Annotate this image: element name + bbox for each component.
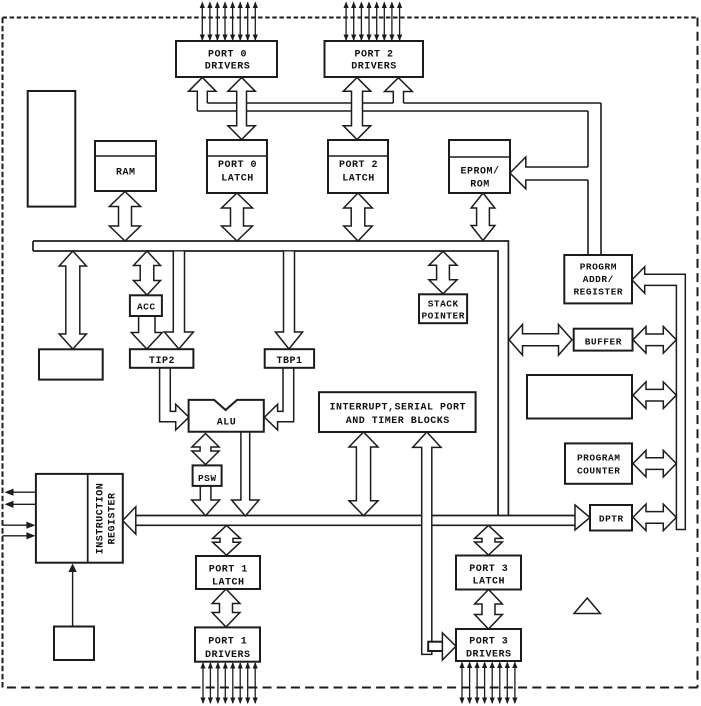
wire: timing box up to instruction register [72, 566, 74, 627]
svg-text:COUNTER: COUNTER [577, 466, 620, 477]
block PORT 2 LATCH [328, 140, 388, 193]
svg-text:DRIVERS: DRIVERS [466, 650, 512, 661]
svg-text:TIP2: TIP2 [149, 356, 175, 367]
svg-text:LATCH: LATCH [473, 577, 506, 588]
arrow: ALU to PSW [192, 434, 219, 465]
block RAM [95, 141, 156, 191]
svg-text:DRIVERS: DRIVERS [351, 62, 397, 73]
svg-text:ROM: ROM [470, 180, 490, 191]
buffer triangle at port 3 drivers [442, 633, 456, 660]
svg-text:PORT 1: PORT 1 [208, 637, 247, 648]
block: unconnected tall register box [28, 91, 76, 207]
wire: vertical channel from port 3 drivers up to interrupt block [413, 432, 441, 654]
svg-text:PORT 3: PORT 3 [469, 637, 508, 648]
svg-text:POINTER: POINTER [421, 311, 464, 322]
control lines into instruction register [3, 522, 36, 540]
arrow: bus down to TMP2 [164, 252, 193, 350]
arrow: port 2 latch to bus [344, 193, 373, 241]
arrow: bus to ACC [134, 251, 161, 295]
arrow: bus up into port 2 drivers (right) [385, 78, 413, 103]
port 3 pin arrows (bottom) [459, 662, 517, 705]
block PORT 3 DRIVERS [456, 629, 521, 661]
arrow: interrupt block to lower bus [349, 432, 378, 516]
oscillator triangle [574, 598, 600, 614]
PORT 2 LATCH header line [328, 155, 388, 157]
port 0 pin arrows (top) [200, 2, 258, 42]
svg-text:DPTR: DPTR [599, 514, 624, 525]
block unnamed register [527, 375, 632, 419]
block TMP1 [265, 349, 314, 368]
block BUFFER [574, 329, 633, 351]
block PROGRM ADDR REGISTER [564, 255, 632, 303]
arrow: bus channel to BUFFER (long horizontal) [509, 325, 572, 356]
svg-text:TBP1: TBP1 [276, 356, 302, 367]
arrow: BUFFER to right channel [633, 327, 676, 354]
arrow: TMP2 into ALU [160, 368, 189, 430]
svg-text:ACC: ACC [137, 302, 156, 313]
svg-text:RAM: RAM [116, 168, 136, 179]
arrow: bus up into port 0 drivers (left) [189, 78, 216, 112]
svg-text:BUFFER: BUFFER [585, 337, 622, 348]
svg-text:PORT 1: PORT 1 [209, 565, 248, 576]
block B register (unlabeled) [39, 349, 103, 379]
svg-text:STACK: STACK [428, 299, 459, 310]
wire arrowhead: lower bus into DPTR [575, 505, 590, 530]
block INTERRUPT SERIAL PORT AND TIMER BLOCKS [319, 392, 476, 432]
block INSTRUCTION REGISTER [36, 474, 123, 563]
arrow: ALU down to lower bus [232, 432, 259, 516]
RAM header line [95, 155, 156, 157]
svg-text:PROGRM: PROGRM [580, 262, 617, 273]
svg-text:LATCH: LATCH [342, 174, 375, 185]
port 2 pin arrows (top) [344, 2, 403, 42]
wire stub into port 3 drivers buffer [428, 642, 443, 651]
wire: top bus under port drivers [197, 103, 601, 255]
arrow: program counter to right channel [633, 450, 676, 477]
svg-text:PORT 0: PORT 0 [208, 50, 247, 61]
arrow: PSW down to lower bus [192, 486, 220, 516]
svg-text:PROGRAM: PROGRAM [577, 453, 620, 464]
wire: right side bus channel with arrow into program address register [632, 267, 685, 530]
instruction register divider [87, 474, 89, 563]
svg-text:AND TIMER BLOCKS: AND TIMER BLOCKS [346, 416, 450, 427]
PORT 0 LATCH header line [207, 155, 267, 157]
svg-text:DRIVERS: DRIVERS [205, 62, 251, 73]
arrow: bus to stack pointer [429, 251, 457, 293]
block PORT 1 DRIVERS [195, 627, 260, 661]
bus: main internal bus [33, 241, 508, 516]
svg-text:REGISTER: REGISTER [108, 492, 119, 544]
block DPTR [590, 505, 632, 531]
block PROGRAM COUNTER [565, 443, 632, 483]
svg-text:ALU: ALU [217, 418, 237, 429]
block PORT 3 LATCH [456, 556, 521, 590]
arrow: port 0 drivers / port 0 latch vertical bus [228, 78, 255, 140]
arrow: RAM to bus [109, 192, 140, 242]
arrow: bus down to TMP1 [275, 252, 302, 350]
block PORT 0 DRIVERS [176, 41, 277, 77]
block ACC [130, 295, 162, 316]
block: small bottom-left box [54, 627, 94, 661]
arrow: port 2 drivers / port 2 latch vertical bus [343, 78, 370, 140]
svg-text:PORT 0: PORT 0 [218, 160, 257, 171]
block ALU (with notched top) [189, 400, 264, 432]
block PORT 2 DRIVERS [325, 41, 424, 77]
svg-text:DRIVERS: DRIVERS [205, 650, 251, 661]
arrow: ACC down to TMP2 [131, 316, 162, 349]
arrow: lower bus to port 1 latch [213, 525, 241, 555]
svg-text:PORT 2: PORT 2 [339, 160, 378, 171]
bus: lower internal bus [136, 516, 575, 526]
arrow: lower bus to port 3 latch [475, 525, 503, 555]
block TMP2 [130, 349, 194, 368]
arrow: unnamed register to right channel [633, 382, 676, 409]
block EPROM/ROM [449, 140, 510, 193]
svg-text:LATCH: LATCH [221, 174, 254, 185]
block PSW [193, 465, 222, 486]
port 1 pin arrows (bottom) [200, 662, 257, 704]
svg-text:REGISTER: REGISTER [573, 287, 623, 298]
arrow: port 0 latch to bus [222, 193, 253, 241]
arrow: DPTR to right channel [633, 504, 676, 531]
svg-text:LATCH: LATCH [212, 578, 245, 589]
svg-text:EPROM/: EPROM/ [460, 166, 499, 178]
svg-text:INSTRUCTION: INSTRUCTION [95, 483, 106, 555]
wire arrowhead: lower bus into instruction register [123, 507, 136, 534]
EPROM/ROM header line [449, 156, 510, 158]
arrow: port 1 latch to port 1 drivers [212, 589, 240, 627]
arrow: TMP1 into ALU [264, 368, 293, 430]
svg-text:PORT 3: PORT 3 [469, 564, 508, 575]
block PORT 1 LATCH [196, 556, 260, 589]
svg-text:PSW: PSW [198, 473, 217, 484]
svg-text:INTERRUPT,SERIAL PORT: INTERRUPT,SERIAL PORT [330, 403, 467, 414]
svg-text:ADDR/: ADDR/ [583, 274, 614, 285]
control lines out of instruction register [5, 489, 36, 508]
wire arrow: program bus into EPROM/ROM [510, 157, 588, 189]
block PORT 0 LATCH [207, 140, 267, 193]
arrow: port 3 latch to port 3 drivers [475, 590, 503, 630]
arrow: bus to B register box [59, 251, 86, 349]
arrow: EPROM/ROM to bus [471, 193, 495, 241]
block STACK POINTER [419, 294, 467, 323]
svg-text:PORT 2: PORT 2 [354, 50, 393, 61]
